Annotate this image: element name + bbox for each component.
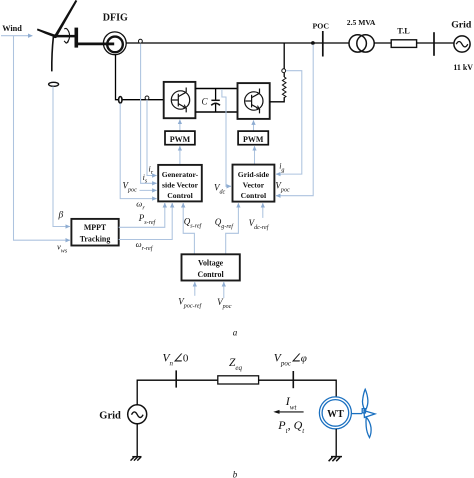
wire PWM2 to GSC (blue) bbox=[253, 120, 255, 131]
ground b2 bbox=[331, 456, 342, 458]
wire P_s-ref (blue) bbox=[119, 203, 165, 227]
wire PWM1 to RSC (blue) bbox=[179, 120, 181, 131]
turbine blades b (blue) bbox=[352, 413, 362, 415]
wire omega_r sense (blue) bbox=[120, 103, 156, 198]
rotation arrow bbox=[64, 28, 69, 43]
svg-text:Grid: Grid bbox=[99, 410, 121, 421]
wire Q_s-ref (blue) bbox=[183, 203, 194, 254]
ground b1 bbox=[136, 424, 138, 457]
svg-text:Vector: Vector bbox=[243, 181, 265, 190]
wind turbine WT bbox=[319, 397, 351, 429]
control box grid-side vector control bbox=[233, 165, 275, 202]
wire branch to bus bbox=[283, 43, 285, 69]
wire V_poc vc input (blue, dangling) bbox=[223, 282, 225, 298]
pwm box PWM1 bbox=[165, 131, 195, 145]
bus bar POC bbox=[322, 31, 324, 57]
svg-text:b: b bbox=[233, 470, 238, 478]
sensor i_r bbox=[145, 96, 149, 100]
wire V_poc-ref input (blue, dangling) bbox=[194, 282, 196, 296]
svg-text:a: a bbox=[233, 328, 238, 338]
sensor i_s bbox=[139, 39, 143, 43]
node V_poc tick bbox=[292, 371, 294, 388]
wire omega_r-ref (blue) bbox=[119, 203, 173, 240]
svg-text:DFIG: DFIG bbox=[103, 12, 128, 23]
svg-text:β: β bbox=[58, 211, 64, 221]
bus bar grid bbox=[433, 32, 435, 56]
transistor in GSC bbox=[245, 89, 263, 114]
control box generator-side vector control bbox=[158, 165, 202, 202]
wire i_r sense (blue) bbox=[147, 100, 157, 176]
svg-text:Voltage: Voltage bbox=[198, 259, 224, 268]
node V_n tick bbox=[175, 370, 177, 387]
control box voltage control bbox=[182, 254, 240, 280]
svg-text:PWM: PWM bbox=[170, 135, 191, 144]
svg-text:POC: POC bbox=[313, 22, 330, 31]
arrow I_wt bbox=[279, 411, 304, 413]
wire rotor bbox=[116, 55, 164, 100]
svg-text:Wind: Wind bbox=[2, 24, 22, 33]
wire GSC ac output bbox=[270, 97, 285, 102]
wire ctrl to PWM2 (blue) bbox=[254, 146, 256, 164]
wire Q_g-ref (blue) bbox=[226, 203, 239, 254]
svg-text:C: C bbox=[202, 97, 209, 107]
generator DFIG bbox=[103, 32, 126, 55]
impedance Z_eq box bbox=[218, 376, 259, 384]
wind arrow (blue) bbox=[1, 35, 32, 37]
svg-text:Generator-: Generator- bbox=[162, 170, 199, 179]
turbine shaft bbox=[55, 35, 76, 38]
pwm box PWM2 bbox=[238, 131, 268, 145]
transformer T1 bbox=[349, 35, 366, 52]
svg-text:Control: Control bbox=[198, 270, 225, 279]
svg-text:Grid: Grid bbox=[451, 19, 472, 30]
wire source up bbox=[137, 380, 218, 405]
gearbox bar bbox=[75, 28, 79, 48]
wire V_dc-ref (blue, dangling) bbox=[262, 203, 264, 218]
svg-text:MPPT: MPPT bbox=[84, 223, 107, 232]
wire V_poc sense (blue) bbox=[276, 45, 313, 196]
svg-text:Grid-side: Grid-side bbox=[238, 170, 270, 179]
wire Z to WT bbox=[259, 380, 337, 397]
dc link rails bbox=[195, 88, 237, 90]
svg-text:Control: Control bbox=[241, 191, 266, 200]
svg-text:Tracking: Tracking bbox=[80, 234, 111, 243]
wire v_ws sense (blue) bbox=[14, 36, 70, 241]
control box MPPT bbox=[71, 219, 118, 246]
wire V_dc sense (blue) bbox=[222, 89, 231, 186]
svg-text:PWM: PWM bbox=[243, 135, 264, 144]
transmission line box bbox=[391, 40, 416, 48]
svg-text:side Vector: side Vector bbox=[162, 181, 199, 190]
svg-text:WT: WT bbox=[327, 409, 344, 420]
node POC junction bbox=[311, 41, 315, 45]
anemometer ellipse bbox=[49, 82, 59, 86]
converter RSC box U1 bbox=[164, 82, 196, 118]
wire beta sense (blue) bbox=[53, 86, 70, 226]
wire ctrl to PWM1 (blue) bbox=[179, 146, 181, 165]
svg-text:T.L: T.L bbox=[397, 26, 410, 35]
shaft to DFIG bbox=[78, 43, 115, 46]
capacitor C bbox=[215, 89, 217, 100]
wire WT to ground bbox=[335, 429, 337, 457]
inductor filter coil bbox=[282, 77, 286, 98]
wire stator bus bbox=[126, 42, 349, 44]
wind turbine blades bbox=[37, 0, 77, 37]
wire i_s sense (blue) bbox=[141, 44, 157, 184]
converter GSC box U2 bbox=[238, 83, 270, 119]
wire T.L to bar bbox=[417, 42, 454, 44]
svg-text:2.5 MVA: 2.5 MVA bbox=[347, 18, 376, 27]
wire to T.L bbox=[374, 42, 391, 44]
source grid b bbox=[128, 405, 147, 424]
sensor i_g bbox=[282, 69, 286, 73]
wire i_g sense (blue) bbox=[276, 71, 302, 174]
transistor in RSC bbox=[171, 88, 189, 113]
svg-text:Control: Control bbox=[167, 191, 192, 200]
svg-text:11 kV: 11 kV bbox=[453, 63, 473, 72]
wire V_poc gen input (blue, dangling) bbox=[140, 189, 157, 191]
sensor omega_r bbox=[119, 97, 122, 104]
grid source bbox=[454, 36, 470, 52]
